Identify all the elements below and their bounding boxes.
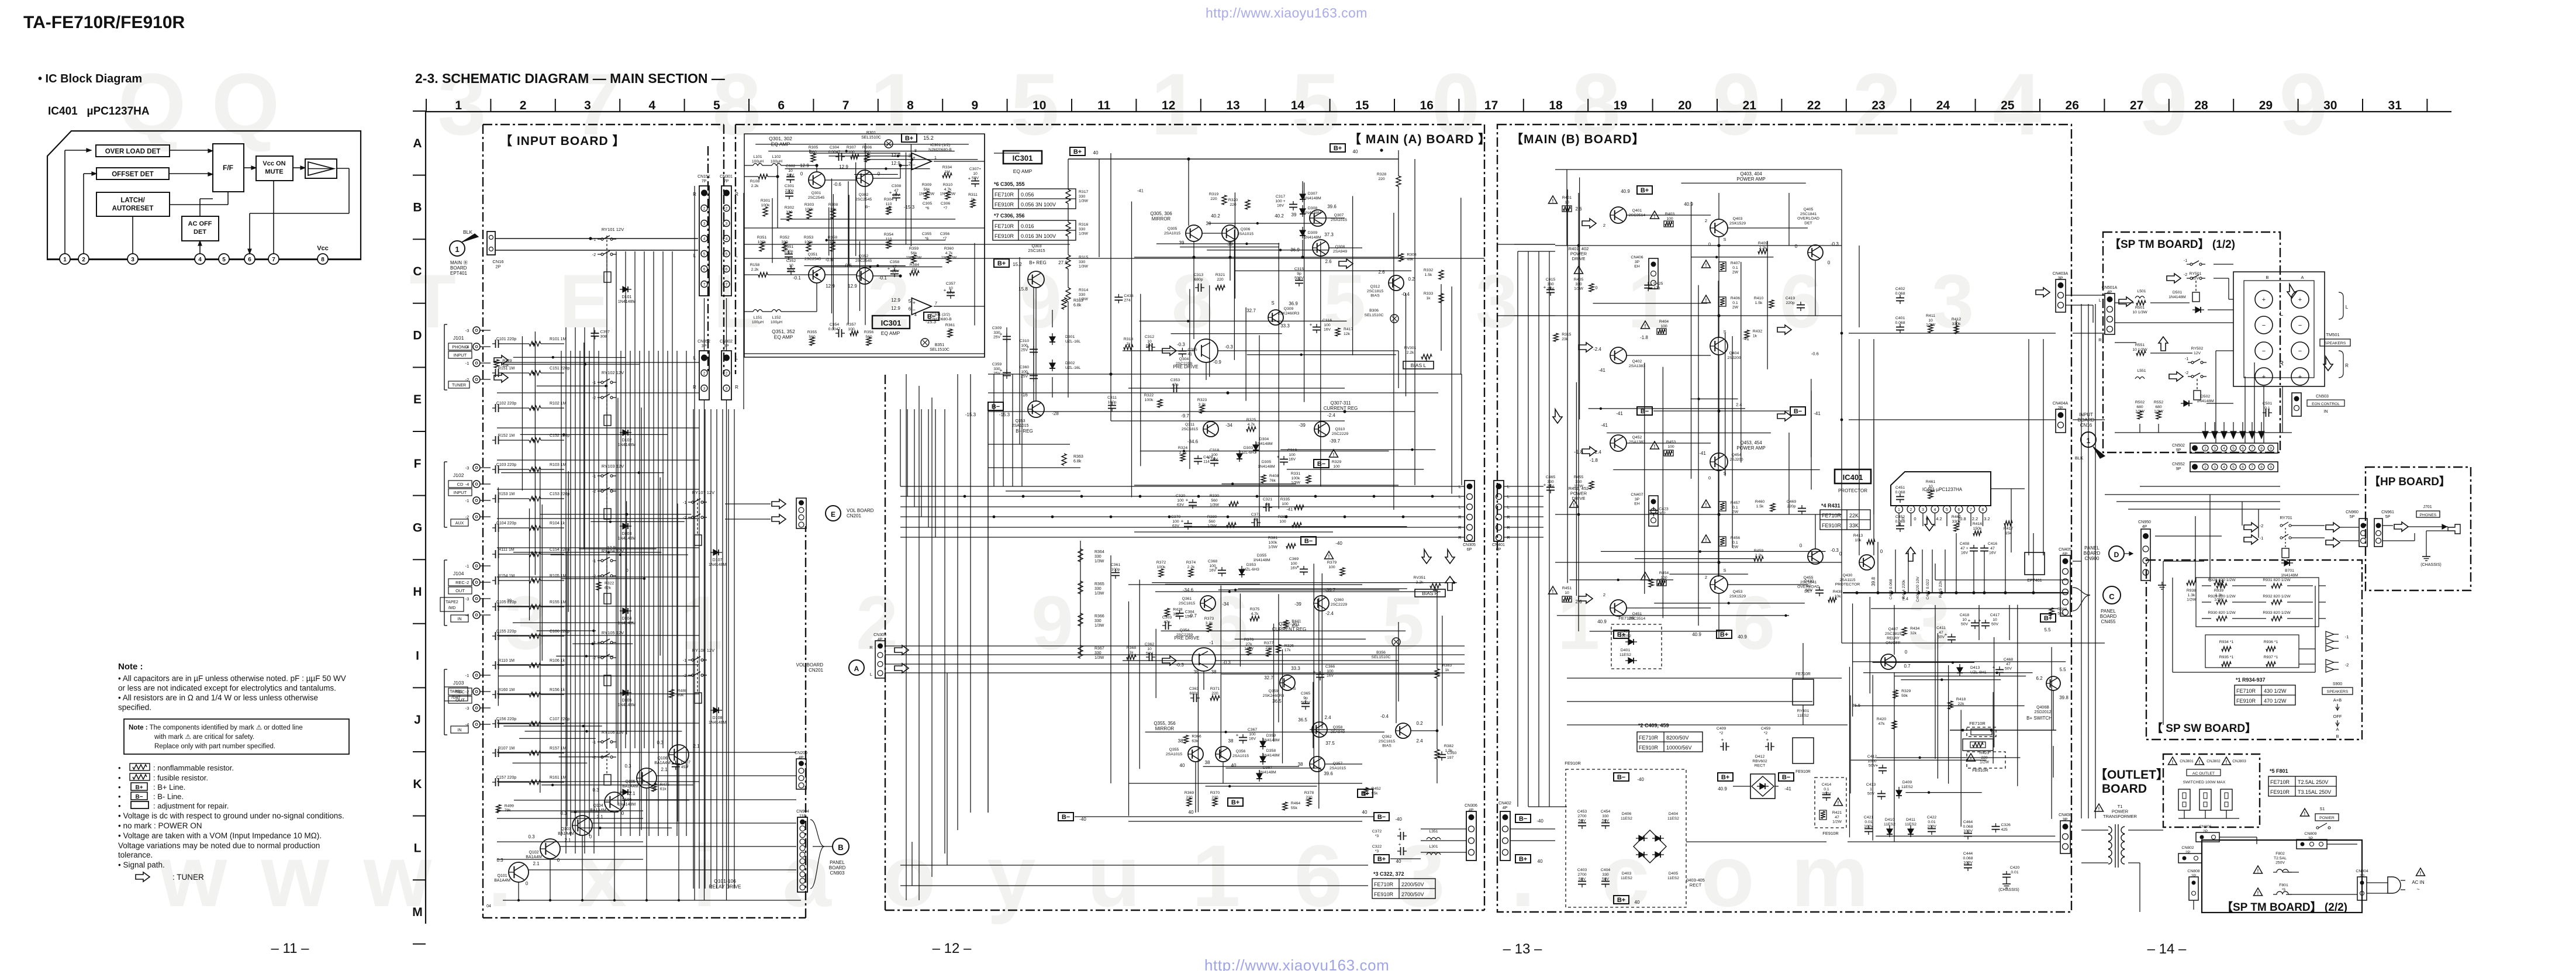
svg-text:C409: C409 — [1717, 727, 1726, 731]
ruler tick — [413, 559, 426, 560]
capacitor — [1003, 336, 1011, 337]
svg-text:B+: B+ — [1721, 774, 1729, 781]
svg-text:R434: R434 — [1910, 627, 1919, 631]
svg-text:Q352: Q352 — [859, 254, 869, 258]
relay contact RY101-2 — [601, 253, 603, 255]
svg-text:100: 100 — [1667, 445, 1674, 449]
svg-text:40: 40 — [1396, 859, 1401, 864]
outlet socket — [2178, 789, 2190, 810]
svg-text:12: 12 — [1162, 99, 1175, 112]
resistor — [1207, 624, 1211, 632]
diode — [713, 707, 719, 713]
svg-text:-2.4: -2.4 — [1593, 347, 1601, 352]
resistor — [1828, 597, 1836, 602]
svg-text:50V: 50V — [1961, 623, 1969, 627]
svg-text:0.016: 0.016 — [1021, 223, 1034, 229]
svg-text:D304: D304 — [1259, 437, 1269, 441]
svg-text:100: 100 — [1660, 324, 1667, 329]
svg-text:-2.4: -2.4 — [1325, 611, 1334, 616]
block Vcc ON MUTE — [256, 156, 293, 181]
svg-text:CN808: CN808 — [2187, 869, 2199, 873]
relay contact RY102-1 — [601, 381, 603, 383]
svg-text:CN404A: CN404A — [2053, 402, 2069, 406]
svg-text:TA-FE710R/FE910R: TA-FE710R/FE910R — [23, 13, 185, 32]
svg-text:R333: R333 — [1424, 292, 1433, 296]
svg-text:-1: -1 — [592, 741, 596, 745]
svg-text:MIRROR: MIRROR — [1155, 726, 1175, 731]
svg-text:•: • — [118, 783, 121, 792]
svg-text:2: 2 — [1705, 575, 1707, 580]
transistor — [1710, 219, 1728, 237]
svg-text:1/3W: 1/3W — [1094, 592, 1104, 596]
variant table — [2235, 685, 2295, 705]
svg-text:BLK: BLK — [463, 229, 472, 235]
ruler tick — [1394, 99, 1395, 112]
ground — [2161, 582, 2163, 585]
svg-text:Q102: Q102 — [529, 851, 538, 855]
svg-text:R368: R368 — [1127, 646, 1136, 650]
svg-text:0: 0 — [1800, 543, 1802, 548]
svg-text:C420: C420 — [2010, 866, 2019, 870]
IC401 pin 6 — [1955, 506, 1963, 513]
transistor — [1222, 225, 1238, 241]
svg-text:D107: D107 — [713, 558, 723, 562]
svg-text:4: 4 — [2223, 465, 2225, 469]
resistor — [1222, 195, 1227, 205]
svg-text:EH: EH — [1634, 502, 1640, 506]
svg-text:330: 330 — [1094, 651, 1101, 655]
svg-text:FE710R: FE710R — [995, 223, 1014, 229]
svg-text:2SC1841: 2SC1841 — [1800, 212, 1817, 216]
svg-text:0.3: 0.3 — [657, 740, 664, 745]
MAIN B BOARD outline — [1497, 125, 2071, 912]
svg-text:-15.3: -15.3 — [904, 205, 915, 210]
svg-text:FE910R: FE910R — [1639, 745, 1659, 751]
svg-text:0.068: 0.068 — [1963, 856, 1973, 861]
svg-text:R372: R372 — [1156, 561, 1166, 565]
svg-text:R937 *1: R937 *1 — [2264, 655, 2278, 659]
safety mark — [1549, 586, 1558, 594]
svg-text:R365: R365 — [1094, 582, 1104, 586]
svg-text:15.2: 15.2 — [923, 135, 934, 141]
svg-text:40: 40 — [1635, 900, 1640, 905]
svg-text:-1.8: -1.8 — [1640, 335, 1648, 340]
capacitor — [1210, 460, 1218, 461]
coil L101 — [753, 164, 762, 166]
resistor — [1421, 354, 1432, 359]
resistor — [947, 255, 951, 263]
svg-text:C153 220p: C153 220p — [550, 492, 569, 496]
svg-text:2: 2 — [703, 372, 706, 376]
svg-text:C422: C422 — [1927, 815, 1936, 820]
svg-text:Q101-106: Q101-106 — [714, 878, 736, 884]
svg-text:C301: C301 — [785, 184, 794, 188]
svg-text:6: 6 — [703, 268, 706, 272]
svg-text:2700/50V: 2700/50V — [1401, 891, 1424, 897]
ruler tick — [413, 175, 426, 176]
svg-text:17k: 17k — [1284, 648, 1292, 652]
svg-text:+: + — [1236, 732, 1239, 738]
svg-text:1k: 1k — [1426, 296, 1431, 300]
svg-text:FE710R: FE710R — [1969, 721, 1985, 726]
svg-text:0: 0 — [621, 811, 624, 816]
capacitor — [2266, 409, 2267, 417]
svg-text:21: 21 — [1743, 99, 1757, 112]
svg-text:L: L — [2346, 305, 2349, 310]
wires B mid horizontals — [1567, 678, 1842, 679]
svg-text:EQ AMP: EQ AMP — [774, 334, 793, 340]
svg-text:22k: 22k — [1958, 702, 1965, 706]
svg-text:0: 0 — [1595, 285, 1597, 291]
svg-text:+: + — [944, 288, 947, 293]
resistor — [1754, 557, 1763, 561]
svg-text:F802: F802 — [2275, 852, 2285, 856]
transistor — [1610, 347, 1627, 364]
svg-text:IN: IN — [2324, 410, 2328, 414]
svg-text:C322: C322 — [1372, 845, 1382, 849]
resistor — [1867, 540, 1875, 544]
resistor — [2266, 647, 2275, 651]
svg-text:C151 220p: C151 220p — [550, 367, 569, 371]
node A VOL BOARD — [849, 660, 864, 675]
svg-text:R110 1M: R110 1M — [498, 659, 514, 663]
wire B verticals long — [1859, 339, 1860, 555]
svg-text:10000/56V: 10000/56V — [1666, 745, 1692, 751]
svg-text:Q358: Q358 — [1333, 725, 1343, 730]
svg-text:5.5: 5.5 — [2059, 667, 2066, 672]
jack pin J102--4 — [473, 481, 480, 488]
capacitor — [1149, 343, 1150, 351]
svg-text:TAPE2: TAPE2 — [446, 600, 458, 604]
svg-text:220: 220 — [1230, 203, 1237, 207]
net label B+ — [1358, 789, 1373, 797]
resistor — [1245, 200, 1250, 209]
resistor — [1954, 326, 1959, 334]
svg-text:R314: R314 — [1079, 288, 1088, 292]
svg-text:!: ! — [1552, 199, 1554, 204]
signal path arrow — [2169, 372, 2183, 381]
svg-text:C415: C415 — [1546, 278, 1555, 282]
IC401 pin 7 — [1967, 506, 1975, 513]
svg-text:OFFSET DET: OFFSET DET — [112, 171, 154, 178]
svg-text:Q453, 454: Q453, 454 — [1740, 440, 1762, 445]
EQ upper wires — [744, 165, 753, 166]
svg-text:R934 *1: R934 *1 — [2219, 640, 2234, 644]
svg-text:C305: C305 — [923, 202, 932, 206]
svg-text:220: 220 — [1210, 197, 1217, 201]
diode — [2195, 307, 2201, 313]
svg-text:Q360: Q360 — [1334, 598, 1344, 602]
resistor — [1658, 580, 1665, 585]
svg-text:INPUT: INPUT — [454, 490, 467, 495]
svg-text:8: 8 — [2260, 465, 2263, 469]
resistor — [1399, 254, 1403, 262]
svg-text:L501: L501 — [2137, 289, 2146, 293]
diode — [623, 523, 628, 529]
block F/F — [213, 144, 244, 192]
svg-text:B+: B+ — [997, 260, 1006, 267]
svg-text:CNJ802: CNJ802 — [2206, 759, 2221, 763]
svg-text:100: 100 — [1282, 502, 1289, 506]
svg-text:11ES2: 11ES2 — [1620, 634, 1631, 638]
svg-text:FE710R: FE710R — [1618, 616, 1635, 621]
svg-text:9: 9 — [2270, 447, 2272, 451]
svg-text:49k: 49k — [1407, 257, 1414, 261]
svg-text:C361: C361 — [1111, 563, 1120, 567]
svg-text:R382: R382 — [1444, 744, 1453, 748]
svg-text:+: + — [2298, 374, 2302, 381]
svg-text:!: ! — [1654, 444, 1656, 450]
svg-text:BA1A4M: BA1A4M — [558, 832, 574, 836]
svg-text:R499: R499 — [505, 804, 514, 808]
svg-text:23: 23 — [1871, 99, 1885, 112]
variant table — [1637, 732, 1703, 752]
svg-text:452: 452 — [681, 765, 688, 769]
svg-text:F: F — [414, 457, 422, 471]
svg-text:39: 39 — [1292, 212, 1297, 217]
svg-text:B: B — [2336, 734, 2339, 739]
svg-text:B: B — [2266, 275, 2268, 280]
svg-text:B+: B+ — [1617, 897, 1625, 904]
svg-text:2.4: 2.4 — [1902, 596, 1908, 602]
variant table — [1820, 510, 1870, 530]
svg-text:2SA1015: 2SA1015 — [1232, 754, 1249, 758]
svg-text:C363: C363 — [1189, 687, 1199, 691]
svg-text:【 MAIN (A) BOARD 】: 【 MAIN (A) BOARD 】 — [1349, 133, 1491, 146]
svg-text:5P: 5P — [2350, 515, 2355, 519]
svg-text:9P: 9P — [2176, 448, 2181, 452]
svg-text:14: 14 — [1291, 99, 1305, 112]
capacitor — [672, 763, 680, 765]
capacitor — [1003, 372, 1011, 374]
jack pin J102--1 — [473, 497, 480, 504]
signal path arrow — [772, 499, 786, 509]
svg-text:2SA1015: 2SA1015 — [1331, 218, 1347, 222]
svg-text:7: 7 — [935, 302, 937, 306]
jack pin J104--2 — [473, 579, 480, 586]
svg-text:R329: R329 — [1332, 460, 1341, 464]
svg-text:2.2k: 2.2k — [751, 184, 759, 188]
resistor — [2156, 411, 2161, 419]
transistor — [1314, 421, 1330, 437]
svg-text:PANEL: PANEL — [830, 860, 845, 865]
svg-text:R324: R324 — [1178, 446, 1187, 450]
svg-text:-41: -41 — [1784, 786, 1791, 792]
svg-text:40.9: 40.9 — [1684, 202, 1693, 207]
diode — [1908, 829, 1914, 834]
svg-text:T3.15AL 250V: T3.15AL 250V — [2298, 789, 2331, 795]
svg-text:【 SP SW BOARD】: 【 SP SW BOARD】 — [2152, 721, 2256, 735]
diode — [1300, 209, 1306, 214]
resistor — [1363, 787, 1368, 796]
svg-text:【 INPUT BOARD 】: 【 INPUT BOARD 】 — [500, 134, 626, 148]
svg-text:B+: B+ — [1334, 145, 1342, 152]
svg-text:1/3W: 1/3W — [1079, 199, 1088, 203]
svg-text:Q407: Q407 — [1888, 627, 1898, 631]
svg-text:11: 11 — [1097, 99, 1111, 112]
svg-text:(CHASSIS): (CHASSIS) — [2420, 563, 2441, 567]
svg-text:R931 820 1/2W: R931 820 1/2W — [2263, 578, 2291, 582]
svg-text:20: 20 — [1678, 99, 1691, 112]
svg-text:C311: C311 — [1107, 396, 1117, 400]
svg-text:5: 5 — [2232, 465, 2235, 469]
resistor — [2138, 411, 2142, 419]
svg-text:R320: R320 — [1228, 198, 1238, 202]
svg-text:•: • — [118, 763, 121, 772]
svg-text:: B- Line.: : B- Line. — [153, 792, 184, 801]
svg-text:H: H — [413, 585, 422, 599]
svg-text:R: R — [869, 645, 873, 650]
junction dots B — [1717, 244, 1720, 247]
INPUT BOARD outline — [483, 124, 724, 125]
svg-text:FE710R: FE710R — [995, 192, 1014, 198]
jack pin J104--3 — [473, 595, 480, 602]
svg-text:RY502: RY502 — [2191, 347, 2204, 351]
svg-text:4: 4 — [914, 313, 917, 317]
svg-text:31: 31 — [2388, 99, 2402, 112]
svg-text:J101: J101 — [453, 335, 464, 341]
svg-text:R418: R418 — [1956, 697, 1966, 702]
svg-text:PRE DRIVE: PRE DRIVE — [1173, 364, 1198, 369]
svg-text:1/2W: 1/2W — [1832, 820, 1842, 824]
svg-text:R160 1M: R160 1M — [498, 688, 515, 692]
svg-text:-1: -1 — [2260, 535, 2264, 541]
svg-text:76k: 76k — [1269, 479, 1276, 483]
svg-text:D406: D406 — [1622, 812, 1631, 816]
svg-text:1N4148M: 1N4148M — [1304, 196, 1321, 201]
transistor — [1710, 576, 1728, 593]
svg-text:3: 3 — [726, 387, 728, 391]
transistor Q102 — [540, 839, 560, 859]
IC401 chip — [1891, 472, 1991, 506]
resistor — [1283, 802, 1287, 810]
EQ box verticals — [984, 134, 985, 357]
svg-text:2.2k: 2.2k — [1416, 580, 1424, 585]
wire pin3 to LATCH — [132, 216, 133, 254]
svg-text:39.6: 39.6 — [1324, 771, 1333, 776]
resistor — [806, 242, 811, 251]
capacitor — [495, 690, 496, 699]
svg-text:R383: R383 — [1442, 664, 1452, 668]
svg-text:o: o — [1701, 827, 1755, 925]
svg-text:8: 8 — [2260, 447, 2263, 451]
svg-text:*7: *7 — [944, 206, 948, 210]
svg-text:4: 4 — [1993, 55, 2041, 153]
svg-text:22K: 22K — [1849, 513, 1859, 519]
svg-text:!: ! — [2257, 869, 2259, 874]
diode — [1655, 852, 1660, 858]
svg-text:UZL-16L: UZL-16L — [1065, 366, 1081, 370]
net label B− — [1515, 814, 1531, 823]
svg-text:560: 560 — [1211, 499, 1218, 503]
svg-text:40: 40 — [1231, 763, 1237, 768]
capacitor — [1578, 823, 1586, 824]
resistor — [494, 360, 499, 368]
svg-text:250V: 250V — [2275, 861, 2285, 865]
svg-text:−: − — [2262, 322, 2266, 329]
svg-text:!: ! — [2172, 760, 2174, 765]
svg-text:Q355: Q355 — [1169, 748, 1179, 752]
diode — [1253, 445, 1259, 450]
ruler tick — [413, 879, 426, 880]
svg-text:7: 7 — [1970, 508, 1972, 512]
svg-text:R326: R326 — [1284, 644, 1294, 648]
svg-text:R441: R441 — [1292, 620, 1301, 624]
wire block diagram bottom rail — [47, 258, 361, 260]
svg-text:12.9: 12.9 — [607, 545, 616, 550]
svg-text:-4: -4 — [465, 482, 469, 487]
svg-text:Q301, 302: Q301, 302 — [769, 136, 792, 141]
signal path arrow — [2036, 288, 2050, 297]
svg-text:B−: B− — [1519, 815, 1527, 823]
svg-text:2-3. SCHEMATIC DIAGRAM — MAIN: 2-3. SCHEMATIC DIAGRAM — MAIN SECTION — — [415, 71, 725, 86]
svg-text:2.6: 2.6 — [1378, 269, 1385, 275]
svg-text:FE710R: FE710R — [1639, 735, 1659, 741]
svg-text:30: 30 — [2323, 99, 2337, 112]
capacitor — [892, 195, 900, 196]
wire relay drive — [624, 799, 796, 800]
svg-text:D401: D401 — [1621, 648, 1630, 652]
svg-text:27k: 27k — [1246, 642, 1253, 647]
svg-text:D353: D353 — [1246, 563, 1256, 567]
svg-text:R304: R304 — [884, 198, 893, 202]
resistor — [758, 272, 768, 277]
transistor — [1859, 555, 1874, 570]
svg-text:2W: 2W — [1732, 545, 1739, 550]
svg-text:308: 308 — [600, 334, 607, 338]
resistor — [1973, 531, 1981, 535]
svg-text:Q: Q — [212, 55, 280, 153]
svg-text:2: 2 — [1705, 218, 1707, 223]
svg-text:L: L — [2099, 298, 2101, 303]
svg-text:-41: -41 — [1286, 507, 1293, 512]
svg-text:7: 7 — [703, 283, 706, 287]
svg-text:I: I — [416, 649, 419, 663]
svg-text:G: G — [413, 521, 422, 534]
svg-text:C358: C358 — [890, 260, 899, 264]
block output amp — [305, 159, 337, 178]
svg-text:+: + — [2298, 296, 2302, 303]
svg-text:Q305, 306: Q305, 306 — [1150, 211, 1172, 216]
svg-text:47 +: 47 + — [1960, 547, 1968, 551]
svg-text:BOARD: BOARD — [2084, 551, 2101, 556]
ruler tick — [413, 239, 426, 240]
capacitor — [1280, 459, 1288, 460]
svg-text:R410: R410 — [1754, 296, 1763, 300]
transistor — [809, 172, 825, 188]
svg-text:32k: 32k — [1910, 631, 1917, 635]
capacitor — [1030, 375, 1038, 376]
svg-text:R488: R488 — [678, 689, 687, 693]
speaker terminal — [2291, 291, 2309, 308]
svg-text:47p: 47p — [1163, 620, 1170, 624]
jack pin J104--1 — [473, 562, 480, 569]
svg-text:+: + — [1399, 827, 1401, 832]
speaker terminal block TM501 — [2233, 272, 2325, 386]
svg-text:B−: B− — [1304, 538, 1313, 545]
relay contact RY106-1 — [601, 741, 603, 743]
svg-text:Q453: Q453 — [1733, 590, 1743, 594]
pin 3 — [127, 254, 138, 264]
svg-text:2W: 2W — [1732, 306, 1739, 310]
svg-text:R329: R329 — [502, 359, 512, 363]
transistor — [1186, 225, 1202, 241]
svg-text:Q308: Q308 — [1335, 245, 1345, 249]
svg-text:2: 2 — [1603, 223, 1605, 228]
svg-text:R107 1M: R107 1M — [498, 747, 515, 751]
svg-text:CN806: CN806 — [2199, 825, 2211, 829]
svg-text:/MD: /MD — [448, 606, 456, 610]
